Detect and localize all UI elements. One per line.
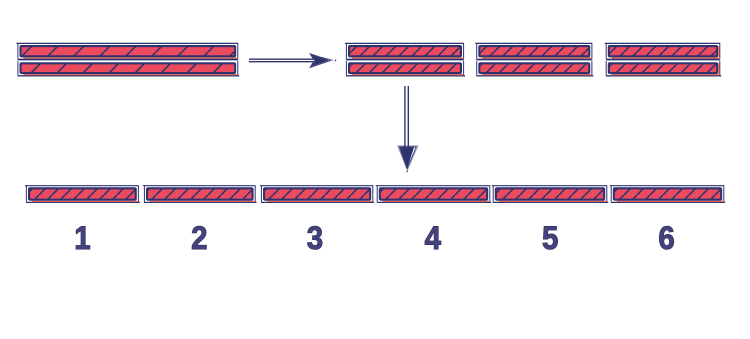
- digested duplex group 3: top strand: [605, 43, 720, 59]
- separated fragment 6: [610, 186, 725, 203]
- digested duplex group 1: top strand: [345, 43, 464, 59]
- arrow down: separation step: [398, 86, 418, 172]
- digested duplex group 2: bottom strand: [476, 61, 593, 76]
- svg-text:2: 2: [191, 220, 207, 256]
- svg-text:5: 5: [542, 220, 558, 256]
- svg-text:4: 4: [425, 220, 441, 256]
- original DNA duplex: top strand: [17, 43, 239, 59]
- svg-text:1: 1: [74, 220, 90, 256]
- digested duplex group 1: bottom strand: [346, 61, 465, 76]
- separated fragment 3: [260, 186, 374, 203]
- separated fragment 4: [376, 186, 491, 203]
- separated fragment 2: [143, 186, 257, 203]
- group 3 right-edge fill overshoot: [718, 46, 720, 74]
- separated fragment 5: [492, 186, 608, 203]
- arrow right: digestion step: [249, 54, 336, 68]
- digested duplex group 2: top strand: [475, 43, 592, 59]
- svg-text:6: 6: [658, 220, 674, 256]
- original DNA duplex: bottom strand: [18, 61, 240, 76]
- svg-text:3: 3: [307, 220, 323, 256]
- separated fragment 1: [25, 186, 140, 203]
- digested duplex group 3: bottom strand: [606, 61, 721, 76]
